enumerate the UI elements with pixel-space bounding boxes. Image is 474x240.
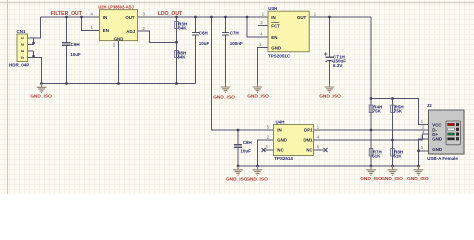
- svg-text:3: 3: [20, 50, 25, 53]
- svg-text:U2H LP38692-ADJ: U2H LP38692-ADJ: [98, 5, 134, 10]
- svg-text:FILTER_OUT: FILTER_OUT: [51, 11, 83, 17]
- svg-text:GND_ISO: GND_ISO: [226, 177, 248, 183]
- svg-text:CN1: CN1: [17, 29, 26, 34]
- svg-text:TPS2051C: TPS2051C: [268, 53, 291, 58]
- svg-text:DP1: DP1: [304, 127, 313, 132]
- svg-text:51K: 51K: [393, 153, 402, 158]
- svg-text:LDO_OUT: LDO_OUT: [158, 11, 183, 17]
- svg-text:C6H: C6H: [199, 31, 208, 36]
- svg-text:GND: GND: [432, 136, 442, 141]
- svg-text:DM1: DM1: [303, 137, 313, 142]
- svg-text:GND: GND: [271, 46, 281, 51]
- svg-text:OUT: OUT: [297, 15, 307, 20]
- svg-text:EN: EN: [271, 35, 277, 40]
- svg-text:U4H: U4H: [276, 119, 285, 124]
- svg-text:GND_ISO: GND_ISO: [213, 95, 235, 101]
- svg-text:2: 2: [20, 43, 25, 46]
- svg-text:10uF: 10uF: [240, 149, 251, 154]
- svg-text:4: 4: [20, 56, 25, 59]
- svg-text:USB-A Female: USB-A Female: [427, 156, 458, 161]
- svg-text:GND_ISO: GND_ISO: [407, 176, 429, 182]
- svg-text:GND_ISO: GND_ISO: [246, 177, 268, 183]
- svg-text:6.3V: 6.3V: [333, 63, 342, 68]
- svg-text:GND: GND: [432, 147, 442, 152]
- svg-text:100nF: 100nF: [230, 41, 243, 46]
- svg-text:GND_ISO: GND_ISO: [30, 94, 52, 100]
- svg-text:GND_ISO: GND_ISO: [381, 176, 403, 182]
- svg-text:GND_ISO: GND_ISO: [319, 93, 341, 99]
- svg-text:75K: 75K: [373, 109, 382, 114]
- svg-text:OUT: OUT: [125, 15, 135, 20]
- svg-text:GND_ISO: GND_ISO: [360, 176, 382, 182]
- svg-text:IN: IN: [271, 15, 275, 20]
- svg-text:J2: J2: [427, 103, 433, 108]
- svg-text:1: 1: [20, 37, 25, 40]
- svg-text:FCT: FCT: [271, 24, 280, 29]
- svg-text:NC: NC: [277, 147, 284, 152]
- svg-text:10uF: 10uF: [70, 52, 81, 57]
- svg-text:EN: EN: [103, 28, 109, 33]
- svg-text:51K: 51K: [372, 153, 381, 158]
- svg-text:10uF: 10uF: [199, 41, 210, 46]
- svg-text:ADJ: ADJ: [126, 29, 135, 34]
- svg-text:GND: GND: [114, 37, 124, 42]
- svg-text:C9H: C9H: [71, 42, 80, 47]
- svg-text:TPS2514: TPS2514: [274, 156, 293, 161]
- svg-text:C7H: C7H: [230, 31, 239, 36]
- svg-text:34K: 34K: [177, 55, 186, 60]
- svg-text:GND_ISO: GND_ISO: [247, 94, 269, 100]
- svg-text:34K: 34K: [178, 26, 187, 31]
- svg-text:U3H: U3H: [268, 6, 277, 11]
- svg-text:HDR_04P: HDR_04P: [9, 63, 29, 68]
- svg-text:IN: IN: [277, 127, 281, 132]
- svg-text:IN: IN: [103, 15, 107, 20]
- svg-text:NC: NC: [306, 147, 313, 152]
- svg-text:75K: 75K: [394, 109, 403, 114]
- svg-text:GND: GND: [277, 137, 287, 142]
- svg-text:C8H: C8H: [243, 140, 252, 145]
